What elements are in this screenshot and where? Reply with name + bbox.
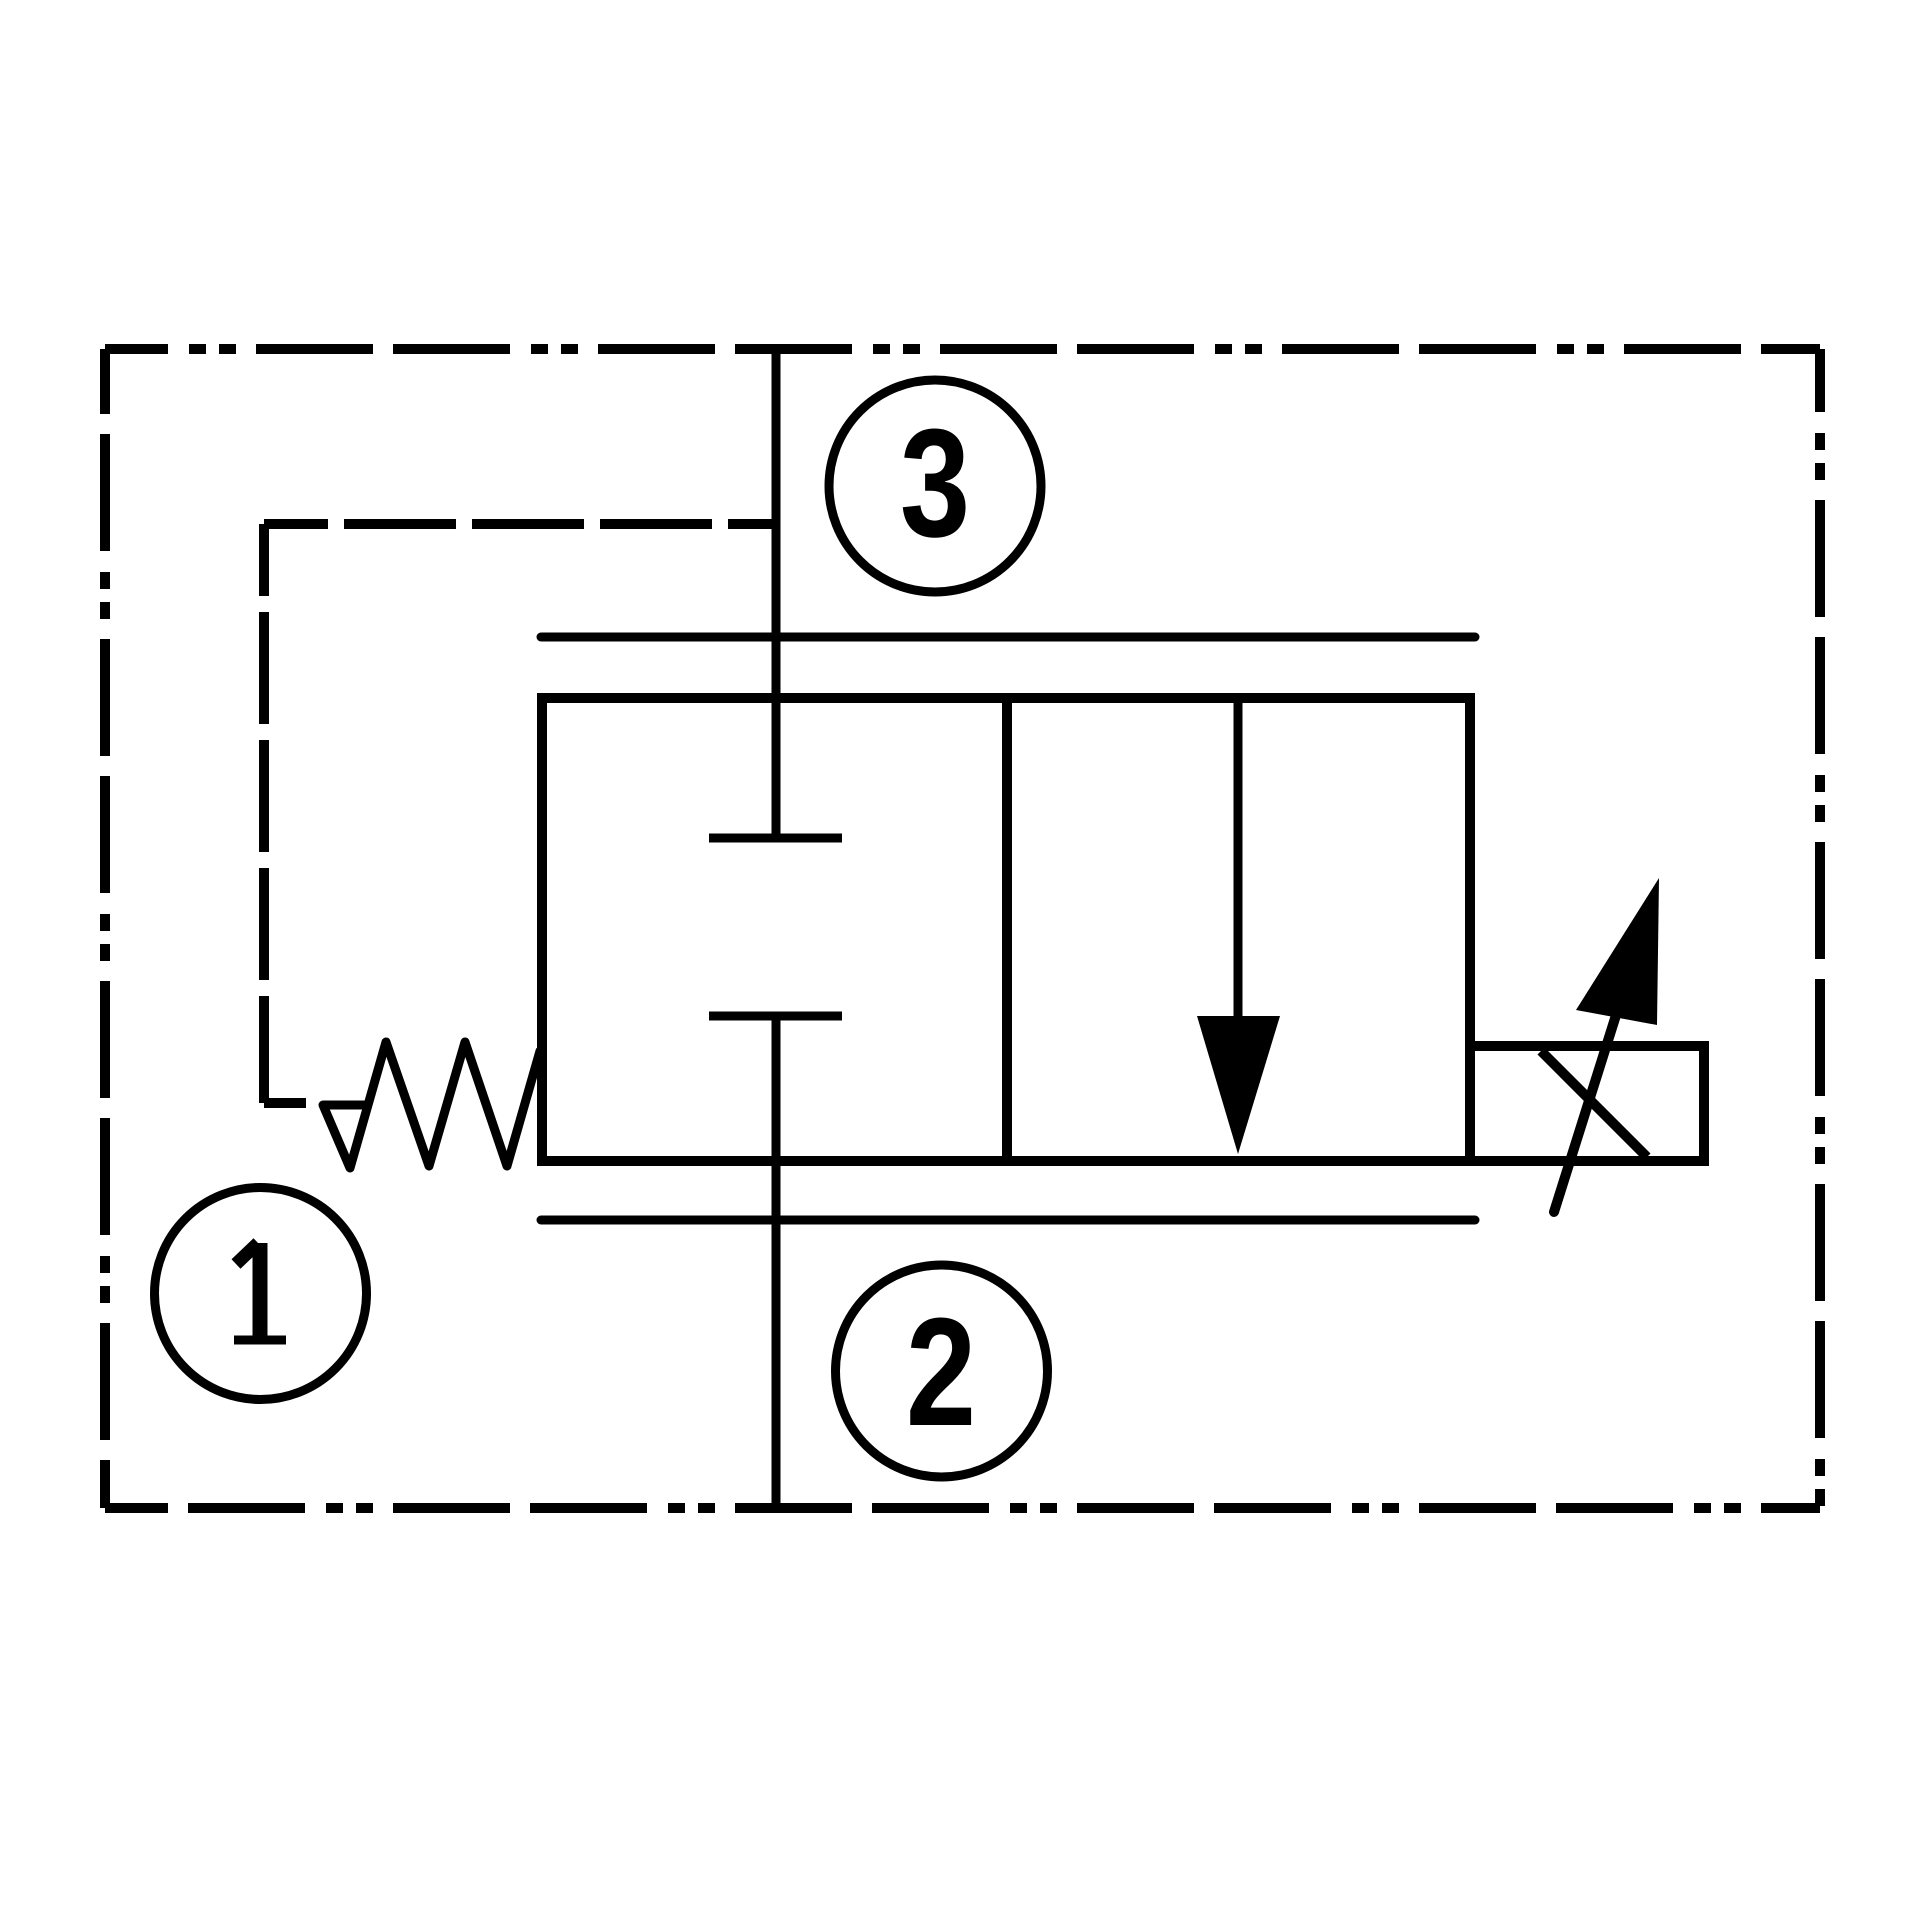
pilot line horizontal (dashed) xyxy=(264,519,777,529)
port circle 3 xyxy=(829,380,1041,592)
port circle 1 xyxy=(155,1188,367,1400)
port 3 line xyxy=(772,349,781,838)
pilot line bottom corner stub xyxy=(264,1098,306,1108)
enclosure boundary right xyxy=(1815,349,1825,1508)
lower port plate line xyxy=(541,1216,1475,1225)
solenoid diagonal xyxy=(1541,1051,1647,1157)
spring xyxy=(323,1042,540,1168)
flow path line xyxy=(1234,698,1243,1020)
svg-text:3: 3 xyxy=(900,397,970,569)
valve body envelope xyxy=(542,698,1470,1161)
port circle 2 xyxy=(836,1265,1048,1477)
flow path arrowhead xyxy=(1197,1016,1280,1154)
enclosure boundary left xyxy=(100,349,110,1508)
adjustment arrow shaft xyxy=(1554,1012,1617,1212)
blocked port T-bar lower xyxy=(709,1012,842,1021)
svg-text:2: 2 xyxy=(906,1286,976,1458)
valve body divider xyxy=(1002,698,1012,1161)
blocked port T-bar upper xyxy=(709,834,842,843)
adjustment arrowhead xyxy=(1576,878,1659,1025)
enclosure boundary top (long-dash double-dot) xyxy=(105,344,1820,354)
enclosure boundary bottom xyxy=(105,1503,1820,1513)
upper port plate line xyxy=(541,633,1475,642)
port label 1 base xyxy=(234,1336,286,1345)
solenoid box xyxy=(1470,1046,1704,1161)
port 2 line xyxy=(772,1016,781,1508)
pilot line vertical (dashed) xyxy=(259,524,269,1103)
port label 1 flag xyxy=(236,1243,258,1264)
port label 1 stem xyxy=(253,1243,268,1340)
